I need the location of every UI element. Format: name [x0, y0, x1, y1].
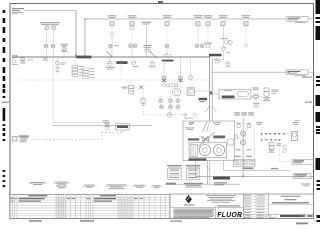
- text group a: [30, 181, 45, 184]
- text group c: [84, 184, 95, 187]
- signal x279 down: [278, 140, 280, 161]
- line label vertical: [199, 98, 208, 100]
- closed valve mark: [139, 85, 143, 89]
- chain x57: [57, 57, 59, 74]
- flow arrow: [209, 92, 213, 96]
- wire note to header: [25, 10, 77, 12]
- bubble pair x284: [283, 145, 286, 148]
- cluster small box: [174, 84, 177, 87]
- company logo diamond: [185, 195, 192, 203]
- drain valve side: [234, 135, 238, 138]
- address lines: [206, 194, 236, 197]
- off-page connector top right: [286, 17, 308, 22]
- silencer outlet: [251, 95, 253, 97]
- motor box: [292, 132, 298, 141]
- instrument top x146: [142, 22, 152, 23]
- cluster dash x170: [170, 96, 172, 113]
- corner label: [209, 54, 222, 57]
- bubble x256: [253, 94, 258, 99]
- blower casing: [189, 143, 227, 158]
- instrument square x190: [187, 88, 195, 96]
- diagonal pipe: [198, 133, 215, 148]
- signal to connector: [279, 160, 291, 162]
- header label: [213, 177, 230, 180]
- signal dash filter: [134, 86, 139, 88]
- bubble cluster 161.5,107.0: [159, 105, 163, 109]
- gauge stack x86: [83, 68, 88, 70]
- inline diamond x112: [110, 33, 114, 38]
- signal x261: [261, 127, 263, 140]
- revision table frame: [10, 195, 170, 219]
- approval table: [244, 196, 268, 198]
- line label 2: [116, 61, 127, 64]
- disclaimer paragraph: [174, 208, 215, 211]
- bubble cluster 170.5,107.0: [168, 105, 172, 109]
- reducer slash x150: [150, 52, 157, 59]
- wire utility header y19: [85, 18, 286, 20]
- instrument top x223: [219, 14, 228, 17]
- rotor 1: [199, 145, 210, 156]
- check valve B: [241, 140, 246, 145]
- aux panel in box: [227, 139, 233, 145]
- binder marks left edge: [3, 10, 6, 13]
- equipment tag: [189, 122, 195, 123]
- centre tick top: [158, 1, 163, 3]
- instrument stack x64: [61, 43, 69, 46]
- bubble cluster 178,100.6: [176, 99, 180, 103]
- off-page connector mid right: [292, 159, 313, 165]
- box label2: [188, 138, 199, 140]
- bubble x190: [190, 57, 192, 76]
- binder marks right edge: [316, 0, 320, 14]
- signal line y80: [20, 79, 210, 81]
- signal y134: [262, 133, 289, 135]
- centre tick left: [2, 102, 9, 103]
- cluster dash x160: [160, 96, 162, 109]
- bubble y115: [167, 113, 172, 118]
- instrument top x132: [128, 14, 137, 17]
- valve x45: [43, 57, 48, 60]
- package boundary: [52, 57, 54, 125]
- control valve w positioner: [264, 88, 269, 91]
- net text a: [256, 122, 262, 123]
- signal run y115: [143, 114, 167, 116]
- instrument top x198: [194, 14, 203, 17]
- title bottom row: [265, 214, 267, 218]
- suction double line: [209, 57, 211, 121]
- bubble pair x112: [109, 44, 113, 48]
- aux label b: [184, 183, 203, 184]
- aux line y170: [224, 169, 291, 171]
- wire drop x198: [197, 26, 199, 44]
- bubble x167: [165, 44, 169, 48]
- box outlet lines: [195, 161, 197, 177]
- flare line: [212, 71, 290, 73]
- title block frame: [170, 194, 314, 219]
- inline filter: [122, 87, 128, 88]
- signal drop x143: [142, 89, 144, 97]
- flare continuation text: [302, 77, 312, 78]
- wire square to riser: [195, 90, 210, 92]
- diag label: [213, 136, 225, 139]
- revision check ticks: [56, 198, 58, 200]
- wire riser x85: [84, 19, 86, 57]
- inlet funnel: [203, 121, 208, 132]
- text group d: [107, 183, 127, 186]
- form number right: [170, 220, 182, 221]
- page number: [296, 223, 308, 225]
- main process header: [13, 56, 211, 58]
- reducer slash x110: [107, 52, 114, 58]
- bubble x227: [225, 62, 229, 66]
- instrument pair x228: [221, 37, 228, 40]
- title text block: [281, 196, 301, 197]
- box inner text right: [213, 122, 221, 123]
- bubble x223: [222, 46, 226, 50]
- cluster dash x178: [177, 96, 179, 109]
- stem x256: [255, 99, 257, 103]
- inlet silencer block: [116, 124, 129, 130]
- line label 3: [162, 60, 174, 62]
- control valve lower: [269, 143, 274, 146]
- signal run y115 b: [172, 114, 181, 116]
- gauge stack x75: [74, 57, 76, 66]
- division line text: [217, 205, 240, 206]
- instrument mid x208: [204, 43, 212, 44]
- hand switch: [172, 89, 181, 95]
- svg-text:FLUOR: FLUOR: [217, 212, 242, 219]
- text group b: [55, 181, 69, 184]
- signal drop2 x143: [142, 103, 144, 115]
- bubble cluster 178,107.0: [176, 105, 180, 109]
- bubble pair left: [44, 44, 48, 48]
- bubble below x133: [131, 61, 135, 65]
- wire drop x208: [207, 26, 209, 43]
- cluster small pair: [163, 84, 166, 87]
- note table 2: [186, 165, 201, 166]
- discharge riser: [242, 118, 244, 177]
- scope bracket: [253, 128, 255, 170]
- inlet valve x107: [103, 119, 110, 122]
- text group f: [153, 184, 161, 187]
- discharge header y176: [196, 175, 314, 177]
- rotor 2: [213, 145, 224, 156]
- off-page connector bottom right: [294, 173, 312, 178]
- local panel: [13, 137, 17, 141]
- instrument pair top-left: [40, 22, 60, 23]
- box inner text left: [186, 126, 195, 129]
- revision table columns: [11, 195, 13, 219]
- wire drops left pair: [46, 29, 48, 44]
- mini table right: [234, 160, 256, 167]
- aux label c: [214, 182, 227, 183]
- discharge silencer: [219, 89, 251, 99]
- aux line y184: [165, 183, 240, 185]
- bubble pair x132: [129, 44, 133, 48]
- instrument top x246: [242, 14, 251, 17]
- instrument top x167: [163, 14, 172, 17]
- box bottom slab: [189, 158, 207, 160]
- bubble cluster 170.5,100.6: [168, 99, 172, 103]
- wire L x223: [223, 51, 225, 60]
- revision row text: [28, 195, 47, 196]
- signal y140: [262, 139, 282, 141]
- note block top-left: [12, 8, 24, 9]
- wire drop x223: [223, 26, 225, 46]
- text group e: [134, 184, 145, 187]
- wire drop x246: [245, 26, 247, 44]
- bubble cluster 160.5,100.6: [158, 99, 162, 103]
- train header text: [234, 112, 240, 113]
- bubble pair discharge: [237, 122, 241, 125]
- cluster bubble mid: [169, 83, 173, 87]
- note x147: [144, 45, 152, 46]
- arrow cluster: [182, 113, 188, 117]
- off-page connector flare: [286, 70, 308, 75]
- valve chain x180: [180, 57, 182, 84]
- line label 1: [77, 56, 92, 59]
- centre tick right: [305, 102, 312, 103]
- wire drop x112: [111, 26, 113, 33]
- hatch block: [190, 144, 197, 156]
- form number left: [29, 220, 42, 222]
- origin marker: [12, 55, 16, 57]
- dashed drop x121: [120, 57, 122, 80]
- check valve A: [241, 131, 246, 136]
- bracket x164-170: [163, 54, 165, 57]
- valve chain x164: [163, 57, 165, 84]
- compressor package box: [183, 121, 235, 161]
- corner note text: [301, 184, 310, 185]
- dashed riser x122: [122, 130, 124, 132]
- bubble x198: [195, 44, 199, 48]
- wire drop x167: [166, 26, 168, 44]
- wire drop x146: [146, 25, 148, 57]
- train text mid: [236, 149, 241, 150]
- signal dash to valve: [259, 95, 263, 97]
- control valve x22: [21, 58, 24, 60]
- bubble x217: [215, 59, 219, 63]
- bubble x143: [141, 98, 146, 103]
- note table 1: [167, 165, 182, 166]
- instrument top x112: [108, 14, 117, 17]
- aux label a: [166, 183, 176, 185]
- signal line y139: [31, 138, 102, 140]
- instrument stack x132: [130, 26, 134, 29]
- silencer feed: [212, 93, 219, 95]
- form number mid: [80, 220, 94, 222]
- y branch: [206, 106, 210, 112]
- instrument top x208: [204, 14, 213, 17]
